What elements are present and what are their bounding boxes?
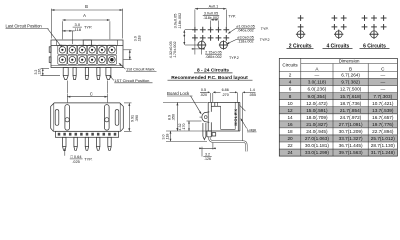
svg-text:24.7(.972): 24.7(.972) bbox=[340, 115, 362, 120]
svg-text:.020: .020 bbox=[200, 93, 207, 97]
svg-text:2: 2 bbox=[289, 73, 292, 78]
svg-text:—: — bbox=[315, 73, 320, 78]
svg-text:10: 10 bbox=[287, 101, 293, 106]
bent solder pin bbox=[209, 137, 246, 152]
svg-text:3.0(.118): 3.0(.118) bbox=[308, 80, 327, 85]
svg-text:28.7(1.130): 28.7(1.130) bbox=[371, 143, 395, 148]
svg-text:12.0(.472): 12.0(.472) bbox=[306, 101, 328, 106]
svg-text:12: 12 bbox=[287, 108, 293, 113]
svg-text:MOLEX: MOLEX bbox=[233, 108, 238, 125]
dimension C bbox=[66, 94, 68, 102]
front view pins below body bbox=[63, 68, 68, 76]
svg-text:18.7(.736): 18.7(.736) bbox=[340, 101, 362, 106]
svg-text:9.0(.354): 9.0(.354) bbox=[308, 94, 327, 99]
svg-text:6.0(.236): 6.0(.236) bbox=[308, 87, 327, 92]
svg-text:16: 16 bbox=[287, 122, 293, 127]
dimension 8.9 body height bbox=[163, 101, 208, 103]
svg-text:—: — bbox=[380, 80, 385, 85]
left edge ribs bbox=[49, 47, 51, 53]
svg-text:20: 20 bbox=[287, 136, 293, 141]
svg-text:1ST Circuit Position: 1ST Circuit Position bbox=[114, 78, 149, 83]
svg-text:TYP.2: TYP.2 bbox=[260, 38, 270, 42]
C extension lines from front view pins bbox=[66, 81, 68, 94]
svg-text:—: — bbox=[380, 73, 385, 78]
svg-text:24.0(.945): 24.0(.945) bbox=[306, 129, 328, 134]
circuit cavities and terminals bbox=[58, 45, 67, 54]
svg-text:Circuits: Circuits bbox=[282, 63, 298, 68]
svg-text:25.7(1.012): 25.7(1.012) bbox=[371, 136, 395, 141]
svg-text:6.7(.264): 6.7(.264) bbox=[341, 73, 360, 78]
svg-text:39.7(1.563): 39.7(1.563) bbox=[339, 150, 363, 155]
mini layout 4 Circuits bbox=[332, 15, 338, 21]
svg-text:.025: .025 bbox=[72, 159, 80, 164]
svg-text:A: A bbox=[83, 13, 86, 18]
svg-text:—: — bbox=[380, 87, 385, 92]
dimension table bbox=[279, 79, 397, 86]
top dimensions 0.5 / 6.86 / 1.4 bbox=[209, 93, 211, 102]
board lock holes bbox=[198, 41, 206, 49]
svg-text:.118±.002: .118±.002 bbox=[237, 40, 253, 44]
svg-text:TYP.: TYP. bbox=[228, 14, 236, 18]
svg-text:B: B bbox=[85, 4, 88, 9]
svg-text:Last Circuit Position: Last Circuit Position bbox=[6, 23, 43, 28]
svg-text:.350: .350 bbox=[171, 114, 175, 121]
svg-text:.118±.002: .118±.002 bbox=[178, 13, 182, 30]
svg-text:15.7(.618): 15.7(.618) bbox=[340, 94, 362, 99]
svg-text:21.7(.854): 21.7(.854) bbox=[340, 108, 362, 113]
svg-text:9.7(.382): 9.7(.382) bbox=[341, 80, 360, 85]
bottom view pins bbox=[63, 137, 66, 146]
svg-text:22: 22 bbox=[287, 143, 293, 148]
end slots bbox=[55, 110, 59, 126]
svg-text:30.7(1.209): 30.7(1.209) bbox=[339, 129, 363, 134]
svg-text:.085±.002: .085±.002 bbox=[205, 55, 221, 59]
chamfer detail line top-right bbox=[239, 105, 245, 111]
svg-text:7.7(.303): 7.7(.303) bbox=[373, 94, 392, 99]
svg-text:Logo: Logo bbox=[247, 127, 257, 132]
svg-text:18.0(.709): 18.0(.709) bbox=[306, 115, 328, 120]
svg-text:6: 6 bbox=[289, 87, 292, 92]
bottom view housing body bbox=[51, 103, 124, 131]
svg-text:TYP.2: TYP.2 bbox=[229, 56, 239, 60]
svg-text:.126: .126 bbox=[204, 157, 211, 161]
svg-text:13.7(.539): 13.7(.539) bbox=[372, 108, 394, 113]
svg-text:.126: .126 bbox=[37, 69, 41, 76]
svg-text:16.7(.657): 16.7(.657) bbox=[372, 115, 394, 120]
pcb layout pin holes grid bbox=[192, 27, 198, 33]
pin shoulder bbox=[207, 131, 211, 137]
board lock leg bbox=[202, 123, 204, 136]
svg-text:.170: .170 bbox=[182, 124, 186, 131]
svg-text:.118: .118 bbox=[138, 35, 142, 42]
svg-text:18: 18 bbox=[287, 129, 293, 134]
svg-text:4: 4 bbox=[289, 80, 292, 85]
svg-text:15.0(.591): 15.0(.591) bbox=[306, 108, 328, 113]
svg-text:33.0(1.299): 33.0(1.299) bbox=[305, 150, 329, 155]
front view housing body bbox=[51, 40, 123, 68]
svg-text:3.2: 3.2 bbox=[205, 152, 210, 156]
svg-text:36.7(1.445): 36.7(1.445) bbox=[339, 143, 363, 148]
side view body bbox=[207, 102, 209, 131]
dimension 4.32 lock position bbox=[187, 120, 202, 122]
svg-text:6.86: 6.86 bbox=[222, 88, 229, 92]
svg-text:C: C bbox=[90, 91, 93, 96]
svg-text:TYP.: TYP. bbox=[261, 27, 269, 31]
dimension 2.15 bbox=[194, 34, 196, 55]
svg-text:22.7(.894): 22.7(.894) bbox=[372, 129, 394, 134]
svg-text:27.7(1.091): 27.7(1.091) bbox=[339, 122, 363, 127]
dimension A bbox=[61, 21, 63, 39]
top latch bbox=[83, 40, 91, 46]
svg-text:30.0(1.181): 30.0(1.181) bbox=[305, 143, 329, 148]
svg-text:27.0(1.063): 27.0(1.063) bbox=[305, 136, 329, 141]
pin strip with pin holes bbox=[55, 131, 118, 137]
svg-text:.118: .118 bbox=[165, 134, 169, 141]
svg-text:8: 8 bbox=[289, 94, 292, 99]
svg-text:Dimension: Dimension bbox=[339, 59, 360, 64]
svg-text:10.7(.421): 10.7(.421) bbox=[372, 101, 394, 106]
mini layout 2 Circuits bbox=[298, 15, 304, 21]
svg-text:1St Circuit Mark: 1St Circuit Mark bbox=[126, 66, 154, 71]
dimension 3.2 (left, pin standoff) bbox=[41, 67, 50, 69]
svg-text:31.7(1.248): 31.7(1.248) bbox=[371, 150, 395, 155]
svg-text:B: B bbox=[349, 66, 352, 71]
dimension 3.0 standoff bbox=[166, 140, 207, 142]
svg-text:24: 24 bbox=[287, 150, 293, 155]
dimension 3.2 pin length bbox=[201, 147, 203, 157]
svg-text:33.7(1.327): 33.7(1.327) bbox=[339, 136, 363, 141]
svg-text:.055: .055 bbox=[249, 93, 256, 97]
svg-text:14: 14 bbox=[287, 115, 293, 120]
svg-text:2.15±0.05: 2.15±0.05 bbox=[205, 50, 221, 54]
svg-text:.170±.002: .170±.002 bbox=[173, 41, 177, 58]
svg-text:19.7(.776): 19.7(.776) bbox=[372, 122, 394, 127]
dimension 9.91 height (right) bbox=[124, 102, 132, 104]
mini layout 6 Circuits bbox=[362, 15, 368, 21]
svg-text:3.0±0.05: 3.0±0.05 bbox=[204, 12, 218, 16]
svg-text:.270: .270 bbox=[222, 93, 229, 97]
svg-text:.040±.002: .040±.002 bbox=[237, 29, 253, 33]
svg-text:A±0.1: A±0.1 bbox=[209, 5, 219, 9]
board lock (side view) bbox=[202, 112, 209, 122]
svg-text:Board Lock: Board Lock bbox=[167, 91, 190, 96]
svg-text:1.4: 1.4 bbox=[250, 88, 255, 92]
svg-text:.390: .390 bbox=[135, 115, 139, 122]
dimension square 0.64 pin bbox=[64, 149, 66, 156]
svg-text:21.0(.827): 21.0(.827) bbox=[306, 122, 328, 127]
board lock slots bbox=[65, 105, 70, 131]
mating cavity bbox=[221, 102, 236, 129]
dimension B bbox=[50, 9, 52, 39]
svg-text:TYP.: TYP. bbox=[84, 25, 92, 30]
svg-text:TYP.: TYP. bbox=[84, 157, 92, 162]
dimension 3.0 row spacing (right) bbox=[124, 49, 132, 51]
svg-text:12.7(.500): 12.7(.500) bbox=[340, 87, 362, 92]
svg-text:0.5: 0.5 bbox=[201, 88, 206, 92]
